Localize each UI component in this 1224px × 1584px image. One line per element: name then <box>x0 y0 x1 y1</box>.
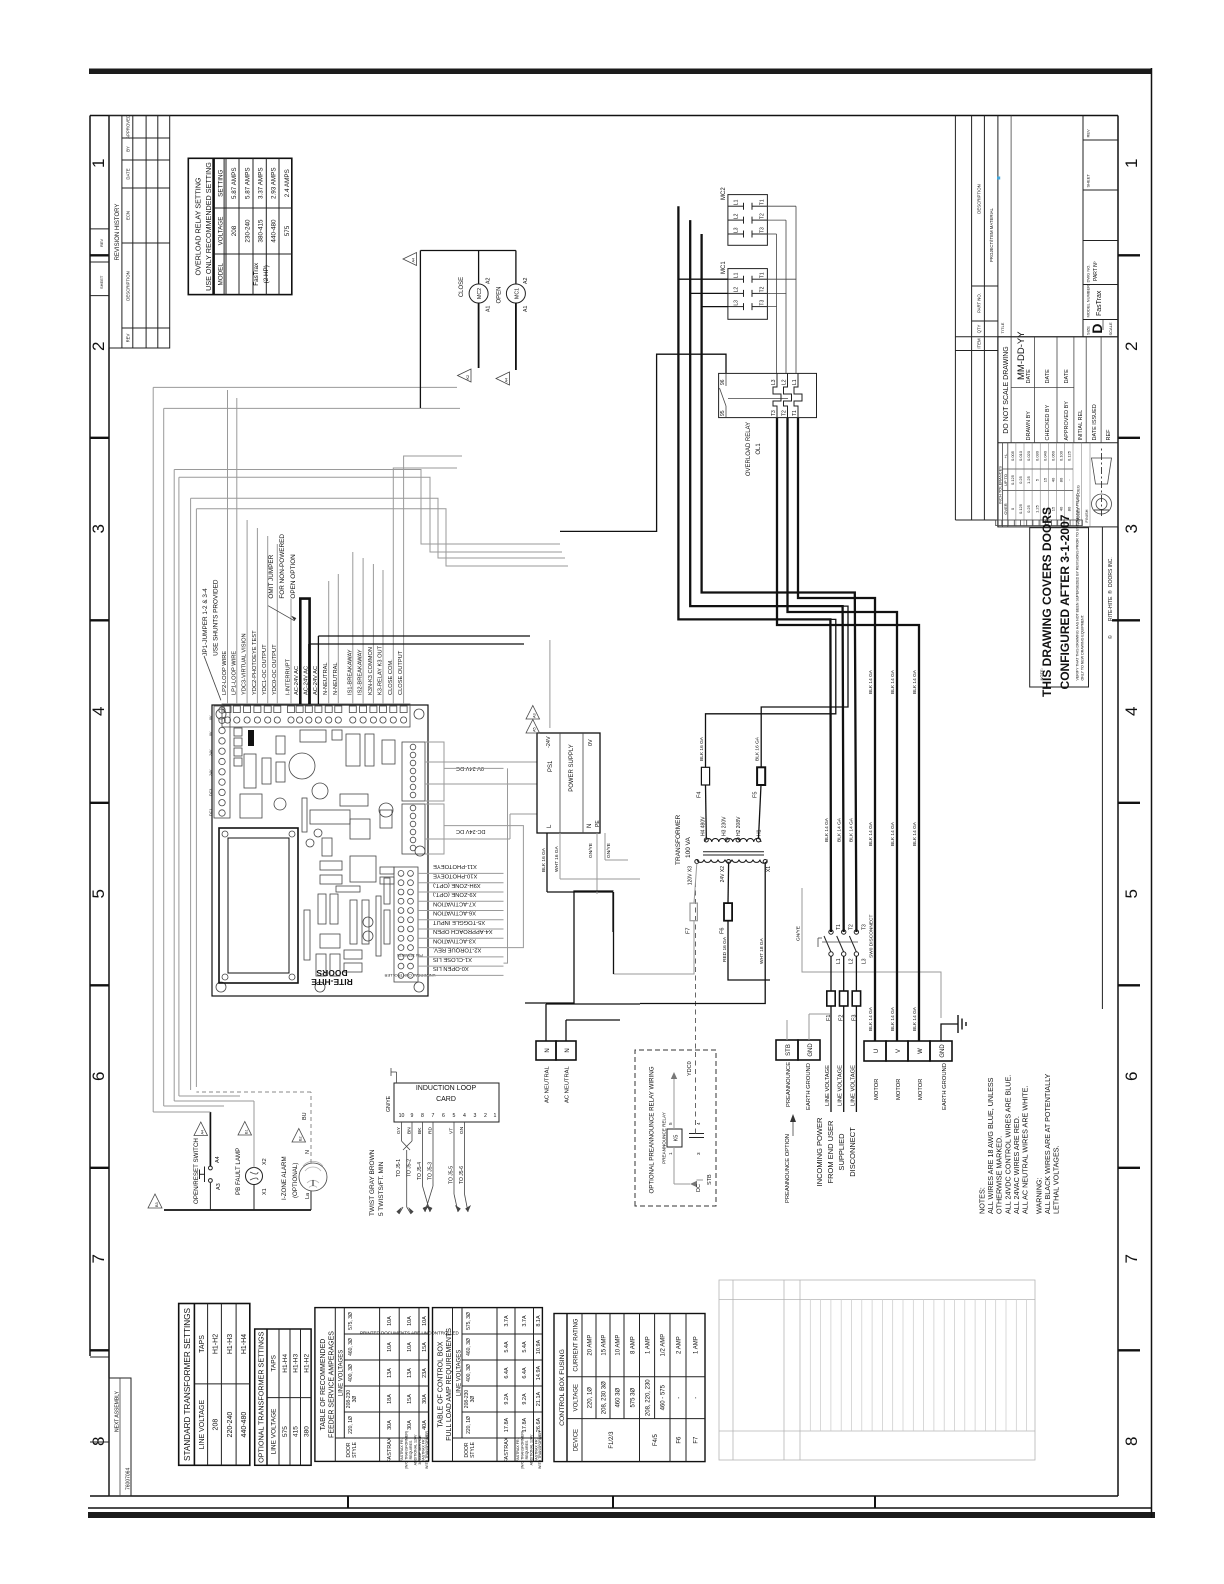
svg-text:F5: F5 <box>752 792 758 798</box>
svg-text:10A: 10A <box>422 1316 428 1326</box>
svg-text:PB FAULT LAMP: PB FAULT LAMP <box>235 1148 242 1195</box>
svg-text:A3: A3 <box>216 1183 222 1190</box>
svg-text:INDUCTION LOOP: INDUCTION LOOP <box>416 1085 477 1092</box>
svg-text:LINE VOLTAGE: LINE VOLTAGE <box>838 1065 844 1106</box>
zone numerals top margin <box>89 159 108 1446</box>
bottom X terminal labels (vertical) <box>433 863 493 971</box>
svg-text:T2: T2 <box>849 924 855 930</box>
scale ruler strip <box>996 520 1083 526</box>
svg-text:5: 5 <box>668 1122 673 1125</box>
svg-text:A4: A4 <box>201 1130 205 1135</box>
svg-text:9.2A: 9.2A <box>522 1393 528 1405</box>
svg-text:0.125: 0.125 <box>1018 503 1023 514</box>
incoming power text <box>815 1117 857 1186</box>
JP1 note <box>202 579 219 656</box>
svg-text:(W/O TRANSFORMER): (W/O TRANSFORMER) <box>521 1431 525 1469</box>
border bottom inner <box>1117 116 1119 1497</box>
svg-text:RD: RD <box>428 1127 434 1134</box>
svg-text:TO J5-2: TO J5-2 <box>407 1159 413 1177</box>
svg-text:575 3Ø: 575 3Ø <box>631 1388 637 1408</box>
svg-text:5.4A: 5.4A <box>504 1341 510 1353</box>
svg-text:FINISH: FINISH <box>1084 509 1089 522</box>
svg-text:TRANSFORMER: TRANSFORMER <box>675 815 682 866</box>
svg-text:PART Nº: PART Nº <box>1093 261 1099 281</box>
svg-text:380: 380 <box>303 1426 310 1437</box>
svg-text:SUPPLIED: SUPPLIED <box>837 1133 846 1171</box>
svg-text:1: 1 <box>1122 159 1141 168</box>
svg-text:9.2A: 9.2A <box>504 1393 510 1405</box>
svg-text:L3: L3 <box>734 227 740 233</box>
svg-text:USE SHUNTS PROVIDED: USE SHUNTS PROVIDED <box>212 579 219 656</box>
svg-text:A4: A4 <box>215 1156 221 1163</box>
svg-text:10: 10 <box>399 1113 405 1119</box>
svg-text:BLK 14 GA: BLK 14 GA <box>849 817 855 842</box>
0V connector wire <box>444 767 504 769</box>
svg-text:30A: 30A <box>387 1420 393 1430</box>
svg-text:575, 3Ø: 575, 3Ø <box>466 1312 472 1330</box>
svg-text:-: - <box>694 1397 700 1399</box>
svg-text:220, 1Ø: 220, 1Ø <box>466 1416 472 1434</box>
motor wires <box>777 418 919 1041</box>
svg-text:©: © <box>1107 635 1114 639</box>
table: control box full load amps <box>433 1308 543 1470</box>
svg-text:0.020: 0.020 <box>1026 450 1031 461</box>
fuse F4 <box>697 619 836 838</box>
svg-text:JP1-JUMPER 1-2 & 3-4: JP1-JUMPER 1-2 & 3-4 <box>202 588 209 656</box>
svg-text:3.7A: 3.7A <box>522 1315 528 1327</box>
svg-text:ITEM: ITEM <box>977 338 982 349</box>
flag A4 (switch) <box>194 1122 208 1136</box>
copyright band <box>1101 527 1103 1009</box>
secondary winding <box>697 860 767 864</box>
svg-text:BLK 16 GA: BLK 16 GA <box>699 736 705 761</box>
svg-text:15A: 15A <box>422 1342 428 1352</box>
flag B3 <box>148 1194 162 1208</box>
svg-text:H3 230V: H3 230V <box>722 816 728 836</box>
svg-text:LINE VOLTAGE: LINE VOLTAGE <box>271 1408 278 1455</box>
svg-text:N: N <box>305 1150 311 1154</box>
svg-text:CONFIGURED AFTER 3-1-2007: CONFIGURED AFTER 3-1-2007 <box>1058 514 1072 689</box>
top edge terminal strip <box>214 706 230 818</box>
pole 1 <box>829 952 833 956</box>
svg-text:8: 8 <box>1122 1437 1141 1446</box>
flag B1 (lamp) <box>238 1122 252 1136</box>
svg-text:40: 40 <box>1059 506 1064 511</box>
svg-text:4: 4 <box>463 1113 466 1119</box>
svg-text:W: W <box>918 1048 924 1054</box>
connector J3 strip <box>402 804 425 854</box>
svg-text:1.25: 1.25 <box>1026 475 1031 484</box>
svg-text:575: 575 <box>282 1426 289 1437</box>
coil MC1 open <box>497 278 529 370</box>
letter ticks left margin <box>348 1496 875 1508</box>
common bus <box>164 1209 311 1211</box>
card pin wires <box>399 1122 468 1214</box>
svg-text:F1/2/3: F1/2/3 <box>609 1431 615 1449</box>
i-zone alarm <box>299 1092 327 1210</box>
jumper leader arrow <box>268 606 294 621</box>
svg-text:4: 4 <box>89 707 108 716</box>
svg-text:X2: X2 <box>262 1158 268 1165</box>
svg-text:5.87 AMPS: 5.87 AMPS <box>231 167 238 199</box>
svg-text:T3: T3 <box>771 410 777 416</box>
svg-text:6.4A: 6.4A <box>504 1367 510 1379</box>
pb fault lamp <box>246 1101 269 1210</box>
STB GND terminals <box>776 1014 830 1110</box>
svg-text:21.1A: 21.1A <box>536 1391 542 1406</box>
svg-text:460, 3Ø: 460, 3Ø <box>348 1338 354 1356</box>
svg-text:REQUIRES: REQUIRES <box>409 1440 413 1459</box>
svg-text:L2: L2 <box>782 379 788 385</box>
svg-text:6.4A: 6.4A <box>522 1367 528 1379</box>
border left outer <box>88 1507 1152 1509</box>
svg-text:400, 3Ø: 400, 3Ø <box>466 1364 472 1382</box>
svg-text:NEXT ASSEMBLY: NEXT ASSEMBLY <box>115 1390 121 1432</box>
svg-text:AC NEUTRAL: AC NEUTRAL <box>545 1066 551 1103</box>
svg-text:FasTrax: FasTrax <box>253 262 260 286</box>
svg-text:0.25: 0.25 <box>1026 504 1031 513</box>
svg-text:BLK 14 GA: BLK 14 GA <box>868 821 874 846</box>
svg-text:PREANNOUNCE RELAY: PREANNOUNCE RELAY <box>662 1112 667 1164</box>
svg-text:17.8A: 17.8A <box>522 1417 528 1432</box>
svg-text:GN/YE: GN/YE <box>606 843 612 858</box>
svg-text:A4: A4 <box>412 258 416 263</box>
svg-text:460, 3Ø: 460, 3Ø <box>466 1338 472 1356</box>
svg-text:GY: GY <box>396 1126 402 1134</box>
svg-text:STYLE: STYLE <box>352 1441 358 1458</box>
flag A4 bus <box>403 253 417 266</box>
svg-text:2.93 AMPS: 2.93 AMPS <box>271 167 278 199</box>
svg-text:13A: 13A <box>407 1368 413 1378</box>
svg-text:3: 3 <box>696 1152 701 1155</box>
svg-text:0.030: 0.030 <box>1034 450 1039 461</box>
bottom edge X terminal strip <box>394 867 418 982</box>
svg-text:LINE VOLTAGES: LINE VOLTAGES <box>339 1350 345 1396</box>
svg-text:INITIAL REL: INITIAL REL <box>1078 410 1084 441</box>
svg-text:3Ø: 3Ø <box>470 1396 476 1403</box>
svg-text:OVERLOAD RELAY SETTING: OVERLOAD RELAY SETTING <box>194 177 203 275</box>
svg-text:1: 1 <box>89 159 108 168</box>
svg-text:B2: B2 <box>299 1136 303 1141</box>
svg-text:6: 6 <box>1122 1072 1141 1081</box>
svg-text:WHT 18 GA: WHT 18 GA <box>759 937 765 964</box>
svg-text:STYLE: STYLE <box>470 1441 476 1458</box>
table: standard transformer settings <box>179 1304 250 1466</box>
svg-text:1: 1 <box>494 1113 497 1119</box>
svg-text:VOLTAGE: VOLTAGE <box>218 217 225 246</box>
svg-text:220, 1Ø: 220, 1Ø <box>588 1387 594 1409</box>
svg-text:N: N <box>587 824 593 828</box>
svg-text:PART NO.: PART NO. <box>977 293 982 313</box>
card ground hook <box>396 1072 398 1083</box>
svg-text:TO J5-3: TO J5-3 <box>428 1162 434 1180</box>
svg-text:V: V <box>896 1049 902 1053</box>
page top bar <box>89 69 1152 75</box>
svg-text:4: 4 <box>696 1122 701 1125</box>
svg-text:2.4 AMPS: 2.4 AMPS <box>284 169 291 197</box>
95/96 contact <box>725 406 727 418</box>
svg-text:DATE: DATE <box>126 168 131 179</box>
svg-text:BLK 14 GA: BLK 14 GA <box>912 821 918 846</box>
svg-text:H1-H4: H1-H4 <box>282 1354 289 1373</box>
svg-text:0.125: 0.125 <box>1010 474 1015 485</box>
svg-text:30A: 30A <box>407 1420 413 1430</box>
svg-text:EARTH GROUND: EARTH GROUND <box>942 1063 948 1110</box>
svg-text:10A: 10A <box>387 1316 393 1326</box>
border top inner <box>108 116 110 1497</box>
svg-text:3.7A: 3.7A <box>504 1315 510 1327</box>
svg-text:7: 7 <box>432 1113 435 1119</box>
svg-text:LINE VOLTAGE: LINE VOLTAGE <box>825 1065 831 1106</box>
GN/YE wire to ground <box>802 888 941 1018</box>
svg-text:(W/O TRANSFORMER): (W/O TRANSFORMER) <box>405 1431 409 1469</box>
svg-text:7: 7 <box>1122 1254 1141 1263</box>
svg-text:F6: F6 <box>720 928 726 934</box>
right edge terminal wires <box>228 390 463 704</box>
primary taps <box>704 838 708 842</box>
right edge terminal labels <box>222 630 404 695</box>
svg-text:5.4A: 5.4A <box>522 1341 528 1353</box>
svg-text:460 3Ø: 460 3Ø <box>616 1388 622 1408</box>
svg-text:2: 2 <box>1122 342 1141 351</box>
svg-text:OVER: OVER <box>1003 503 1008 514</box>
svg-text:T1: T1 <box>792 410 798 416</box>
svg-text:PREANNOUNCE OPTION: PREANNOUNCE OPTION <box>785 1134 791 1203</box>
svg-text:APPROVED BY: APPROVED BY <box>1064 401 1070 441</box>
svg-text:T3: T3 <box>760 300 766 306</box>
svg-text:F4: F4 <box>697 792 703 798</box>
svg-text:1.25: 1.25 <box>1034 504 1039 513</box>
svg-text:VERIFY THAT THIS DRAWING HAS N: VERIFY THAT THIS DRAWING HAS NOT BEEN SU… <box>1076 493 1080 680</box>
svg-text:PE: PE <box>595 820 601 827</box>
X1 neutral wire <box>640 864 765 1004</box>
connector wires to PS1 <box>425 762 537 839</box>
secondary taps <box>695 860 699 864</box>
svg-text:T1: T1 <box>760 272 766 278</box>
svg-text:K2: K2 <box>466 375 470 380</box>
svg-text:VOLTAGE: VOLTAGE <box>574 1384 580 1411</box>
svg-text:CLOSE: CLOSE <box>459 277 465 297</box>
svg-text:-24V: -24V <box>546 736 552 748</box>
svg-text:N: N <box>545 1048 551 1052</box>
svg-text:REV: REV <box>126 333 131 342</box>
board tiny silkscreen labels row <box>209 715 213 816</box>
zone ticks bottom <box>1112 255 1140 1350</box>
svg-text:208, 230 3Ø: 208, 230 3Ø <box>602 1381 608 1414</box>
svg-text:3.37 AMPS: 3.37 AMPS <box>258 167 265 199</box>
svg-text:GN/YE: GN/YE <box>386 1095 392 1112</box>
flag A3 <box>526 706 540 720</box>
svg-text:SCALE: SCALE <box>1108 322 1113 335</box>
svg-text:MODEL NUMBER: MODEL NUMBER <box>1086 285 1091 318</box>
svg-text:10.9A: 10.9A <box>536 1339 542 1354</box>
svg-text:H2 208V: H2 208V <box>736 816 742 836</box>
svg-text:0.25: 0.25 <box>1018 475 1023 484</box>
svg-text:A1: A1 <box>523 306 529 312</box>
MC L stub wires <box>678 279 728 306</box>
svg-text:0V: 0V <box>588 739 594 746</box>
earth ground wire and symbol <box>941 1024 958 1041</box>
svg-text:CHECKED BY: CHECKED BY <box>1045 404 1051 440</box>
line voltage wires <box>831 956 856 1112</box>
svg-text:3: 3 <box>474 1113 477 1119</box>
svg-text:WITH TRANSFORMER: WITH TRANSFORMER <box>538 1431 542 1469</box>
JP1 jumper block <box>248 730 254 746</box>
svg-text:4: 4 <box>1122 707 1141 716</box>
svg-text:DOORS INC.: DOORS INC. <box>1108 557 1114 587</box>
svg-text:THIS DRAWING COVERS DOORS: THIS DRAWING COVERS DOORS <box>1040 507 1054 697</box>
svg-text:DATE: DATE <box>1064 369 1070 384</box>
svg-text:WHT 16 GA: WHT 16 GA <box>554 845 560 872</box>
svg-text:6: 6 <box>89 1072 108 1081</box>
THIS DRAWING COVERS box <box>1030 493 1089 697</box>
aux small squares <box>234 728 242 766</box>
svg-text:15 AMP: 15 AMP <box>602 1335 608 1356</box>
svg-text:CARD: CARD <box>436 1096 456 1103</box>
svg-text:RITE-HITE: RITE-HITE <box>1108 596 1114 621</box>
svg-text:(OPTIONAL): (OPTIONAL) <box>292 1163 299 1198</box>
svg-text:0V: 0V <box>209 715 213 720</box>
svg-text:L3: L3 <box>734 300 740 306</box>
svg-text:T3: T3 <box>760 227 766 233</box>
svg-text:La: La <box>305 1192 311 1199</box>
svg-text:L2: L2 <box>849 958 855 964</box>
svg-text:2: 2 <box>89 342 108 351</box>
flag K4 <box>496 372 510 385</box>
fuse F6 <box>720 864 771 981</box>
svg-text:H1-H2: H1-H2 <box>303 1354 310 1373</box>
table: control box fusing <box>554 1314 705 1462</box>
svg-text:H1-H4: H1-H4 <box>241 1334 248 1354</box>
svg-text:230-240: 230-240 <box>245 219 252 243</box>
svg-text:0.100: 0.100 <box>1059 450 1064 461</box>
svg-text:A2: A2 <box>486 278 492 284</box>
mounting holes <box>216 709 425 992</box>
svg-text:-: - <box>1067 479 1072 481</box>
svg-text:BLK 14 GA: BLK 14 GA <box>890 821 896 846</box>
svg-text:DATE: DATE <box>1026 369 1032 384</box>
svg-text:TO J5-5: TO J5-5 <box>449 1166 455 1184</box>
ground symbol <box>958 1015 966 1033</box>
misc board components <box>240 730 395 976</box>
svg-text:FOR NON-POWERED: FOR NON-POWERED <box>279 534 286 599</box>
svg-text:T2: T2 <box>760 213 766 219</box>
svg-text:40: 40 <box>1051 477 1056 482</box>
omit jumper (thick) <box>300 599 309 704</box>
svg-text:CURRENT RATING: CURRENT RATING <box>574 1318 580 1371</box>
svg-text:18A: 18A <box>387 1394 393 1404</box>
svg-text:1 AMP: 1 AMP <box>646 1336 652 1354</box>
svg-text:2 AMP: 2 AMP <box>677 1336 683 1354</box>
svg-text:T1: T1 <box>760 199 766 205</box>
svg-text:TWIST GRAY BROWN: TWIST GRAY BROWN <box>369 1149 376 1216</box>
projection symbol <box>1092 458 1112 514</box>
svg-text:TABLE OF CONTROL BOX: TABLE OF CONTROL BOX <box>438 1341 445 1427</box>
svg-text:0.125: 0.125 <box>1067 450 1072 461</box>
svg-text:TITLE: TITLE <box>1000 322 1005 333</box>
svg-text:TO J5-6: TO J5-6 <box>459 1166 465 1184</box>
svg-text:VT: VT <box>449 1128 455 1134</box>
svg-text:BLK 14 GA: BLK 14 GA <box>890 1006 896 1031</box>
next assembly block <box>90 1357 132 1496</box>
svg-text:BLK 14 GA: BLK 14 GA <box>868 1006 874 1031</box>
preannounce option arrow note <box>785 1114 796 1203</box>
svg-text:®: ® <box>1107 590 1114 594</box>
svg-text:5 TWISTS/FT. MIN: 5 TWISTS/FT. MIN <box>378 1161 385 1216</box>
svg-text:MC1: MC1 <box>721 261 727 274</box>
svg-text:PROJECT/ITEM MATERIAL: PROJECT/ITEM MATERIAL <box>989 207 994 261</box>
svg-text:95: 95 <box>720 410 726 416</box>
svg-text:9: 9 <box>411 1113 414 1119</box>
svg-text:100 VA: 100 VA <box>685 836 692 858</box>
svg-text:SHEET: SHEET <box>1086 174 1091 188</box>
svg-text:BLK 16 GA: BLK 16 GA <box>541 847 547 872</box>
svg-text:GN: GN <box>459 1126 465 1134</box>
svg-text:MC2: MC2 <box>721 187 727 200</box>
svg-text:CONTROL BOX FUSING: CONTROL BOX FUSING <box>559 1349 566 1426</box>
svg-text:BU: BU <box>302 1112 308 1120</box>
svg-text:WITH TRANSFORMER: WITH TRANSFORMER <box>425 1431 429 1469</box>
svg-text:F7: F7 <box>686 928 692 934</box>
svg-text:5: 5 <box>453 1113 456 1119</box>
flag B2 (alarm) <box>292 1129 306 1143</box>
svg-text:15: 15 <box>1042 477 1047 482</box>
bottom-left reference grid table <box>719 1280 1035 1460</box>
svg-text:120V X3: 120V X3 <box>688 866 694 885</box>
right edge terminal strip <box>222 704 410 727</box>
svg-text:A4: A4 <box>505 378 509 383</box>
svg-text:USE ONLY RECOMMENDED SETTING: USE ONLY RECOMMENDED SETTING <box>204 162 213 291</box>
svg-text:FROM END USER: FROM END USER <box>826 1120 835 1184</box>
svg-text:24V: 24V <box>209 749 213 756</box>
svg-text:23A: 23A <box>422 1368 428 1378</box>
alarm dashed riser <box>196 1091 311 1093</box>
svg-text:SHEET: SHEET <box>99 275 104 289</box>
core <box>703 854 764 856</box>
actuator <box>728 397 788 399</box>
svg-text:BN: BN <box>407 1127 413 1134</box>
svg-text:TAPS: TAPS <box>271 1354 278 1371</box>
X3 wire to DC connector <box>444 826 523 948</box>
svg-text:F6: F6 <box>677 1436 683 1444</box>
svg-text:L3: L3 <box>861 958 867 964</box>
svg-text:L: L <box>547 824 553 828</box>
svg-text:FasTrax: FasTrax <box>1096 290 1103 316</box>
svg-text:T1: T1 <box>836 924 842 930</box>
svg-text:DC1: DC1 <box>209 809 213 816</box>
heater poles <box>773 373 802 417</box>
X terminal wires <box>418 873 504 975</box>
OL 95/96 control wire <box>560 354 726 531</box>
svg-text:REVISION HISTORY: REVISION HISTORY <box>115 204 121 261</box>
svg-text:80: 80 <box>1059 477 1064 482</box>
svg-text:DISCONNECT: DISCONNECT <box>848 1127 857 1177</box>
fuse F5 <box>752 606 848 838</box>
svg-text:A1: A1 <box>486 306 492 312</box>
svg-text:U: U <box>874 1049 880 1053</box>
svg-text:OPEN: OPEN <box>497 286 503 303</box>
svg-text:10A: 10A <box>407 1316 413 1326</box>
svg-text:3Ø: 3Ø <box>352 1396 358 1403</box>
svg-text:5: 5 <box>1034 478 1039 481</box>
svg-text:PREANNOUNCE: PREANNOUNCE <box>786 1062 792 1107</box>
svg-text:DESCRIPTION: DESCRIPTION <box>977 184 982 213</box>
revision history table <box>109 115 170 348</box>
svg-text:DATE: DATE <box>1045 369 1051 384</box>
svg-text:L1: L1 <box>734 272 740 278</box>
border left inner <box>90 1495 1118 1497</box>
svg-text:UP TO: UP TO <box>1003 474 1008 486</box>
